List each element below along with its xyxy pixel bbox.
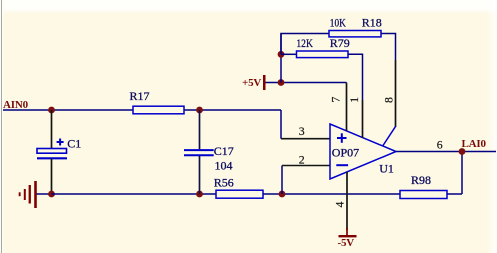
op-amp U1 xyxy=(330,124,396,179)
junction at C17 bottom xyxy=(196,191,203,198)
wire pin2 vertical xyxy=(281,166,283,195)
svg-text:10K: 10K xyxy=(330,15,346,29)
op-amp U1 pin 6 output wire xyxy=(396,151,496,153)
wire R98 right stub xyxy=(447,193,462,195)
op-amp U1 pin 8 diagonal xyxy=(383,127,396,146)
op-amp U1 pin 1 xyxy=(362,100,364,138)
svg-text:C17: C17 xyxy=(214,144,234,158)
svg-text:3: 3 xyxy=(299,124,305,138)
svg-text:12K: 12K xyxy=(296,36,313,50)
resistor R18 xyxy=(329,31,381,37)
power -5V bar xyxy=(339,235,357,237)
resistor R98 xyxy=(400,191,447,199)
svg-text:+5V: +5V xyxy=(242,77,261,89)
junction R79 left xyxy=(278,51,285,58)
wire input right (R17 to pin3 corner) xyxy=(184,109,281,111)
svg-text:8: 8 xyxy=(382,97,396,103)
svg-text:R18: R18 xyxy=(362,15,382,29)
capacitor C1 xyxy=(37,139,67,159)
capacitor C17 xyxy=(184,150,214,155)
resistor R56 xyxy=(216,190,263,198)
svg-text:104: 104 xyxy=(215,159,233,173)
svg-text:R98: R98 xyxy=(411,173,431,187)
capacitor C17 pin top xyxy=(199,110,201,149)
resistor R17 xyxy=(133,106,184,114)
svg-text:4: 4 xyxy=(332,202,346,208)
op-amp U1 pin 4 xyxy=(346,172,348,230)
junction output node xyxy=(459,148,466,155)
svg-text:R56: R56 xyxy=(214,175,234,189)
capacitor C1 pin top xyxy=(51,110,53,149)
svg-text:7: 7 xyxy=(329,96,343,102)
wire bottom bus left xyxy=(52,193,217,195)
op-amp U1 pin 2 xyxy=(282,165,330,167)
junction +5V node xyxy=(278,79,285,86)
power +5V bar xyxy=(263,75,266,90)
svg-text:U1: U1 xyxy=(379,162,394,176)
wire vertical drop to pin 3 xyxy=(280,110,282,139)
wire R18 right to pin8 xyxy=(381,34,396,61)
svg-text:R17: R17 xyxy=(130,89,150,103)
wire input left (AIN0 to R17) xyxy=(3,109,133,111)
wire R79 right to pin1 xyxy=(348,54,363,100)
ground xyxy=(19,181,37,208)
wire ground stub xyxy=(37,193,52,195)
svg-text:LAI0: LAI0 xyxy=(462,138,487,150)
op-amp U1 pin 8 wire xyxy=(395,60,397,127)
svg-text:2: 2 xyxy=(299,152,305,166)
wire +5V to pin7 xyxy=(266,82,347,84)
resistor R79 xyxy=(297,51,349,58)
svg-text:OP07: OP07 xyxy=(332,145,359,159)
svg-text:AIN0: AIN0 xyxy=(3,99,29,111)
node A junction at C1 top xyxy=(48,107,55,114)
capacitor C1 pin bottom xyxy=(51,158,53,194)
svg-text:1: 1 xyxy=(347,97,361,103)
svg-text:6: 6 xyxy=(437,138,443,152)
wire R18 left xyxy=(281,34,329,55)
capacitor C17 pin bottom xyxy=(199,156,201,194)
wire +5V riser to R79/R18 xyxy=(280,34,282,83)
wire bus mid (R56 to R98) xyxy=(263,193,400,195)
junction at C1 bottom xyxy=(48,191,55,198)
wire feedback vertical xyxy=(461,152,463,195)
junction at pin2 bottom xyxy=(279,191,286,198)
node B junction at C17 top xyxy=(196,107,203,114)
svg-text:R79: R79 xyxy=(330,36,350,50)
svg-text:-5V: -5V xyxy=(338,237,355,249)
power -5V stub xyxy=(346,228,348,235)
op-amp U1 pin 3 xyxy=(281,138,330,140)
svg-text:C1: C1 xyxy=(67,137,81,151)
wire R79 left stub xyxy=(281,53,297,55)
op-amp U1 pin 7 xyxy=(346,83,348,132)
